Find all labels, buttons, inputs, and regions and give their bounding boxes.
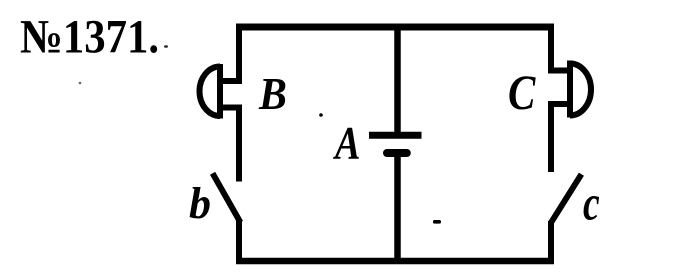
svg-text:A: A [332,118,360,170]
svg-text:№1371.: №1371. [20,10,159,63]
svg-text:C: C [508,64,536,120]
svg-text:B: B [258,68,287,119]
svg-text:b: b [189,179,211,228]
svg-text:c: c [583,175,600,230]
